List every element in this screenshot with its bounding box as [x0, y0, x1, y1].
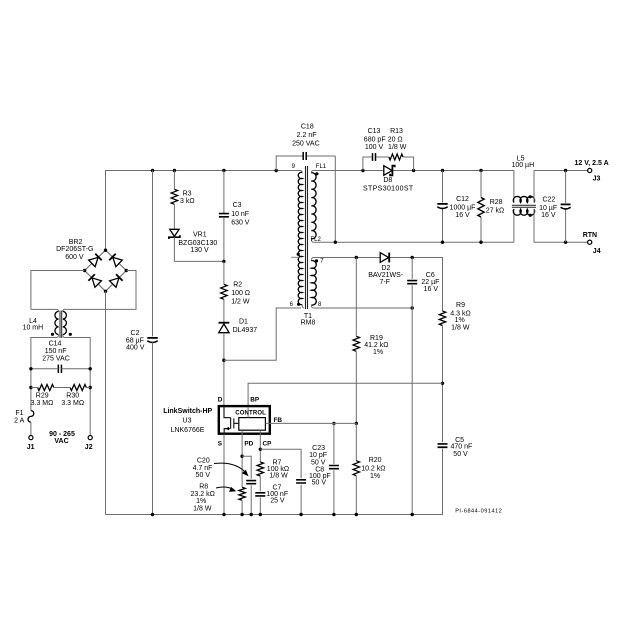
wire: CP pin down — [259, 435, 261, 462]
wire: node to R2 — [223, 261, 225, 284]
capacitor C7 — [255, 493, 265, 496]
wire: L4 left top wire — [31, 309, 59, 311]
svg-text:STPS30100ST: STPS30100ST — [363, 186, 414, 193]
svg-text:10 pF: 10 pF — [309, 452, 327, 459]
diode BR2 bottom-right — [110, 274, 123, 287]
U3 CP internal stub — [259, 430, 261, 435]
resistor R8 — [239, 487, 245, 500]
svg-text:10.2 kΩ: 10.2 kΩ — [361, 465, 385, 472]
svg-text:1%: 1% — [455, 317, 465, 324]
svg-text:CONTROL: CONTROL — [235, 410, 266, 416]
svg-text:2.2 nF: 2.2 nF — [297, 132, 317, 139]
svg-text:DL4937: DL4937 — [233, 327, 258, 334]
diode BR2 top-right — [109, 254, 122, 267]
svg-text:130 V: 130 V — [190, 247, 209, 254]
wire: pin 8 wire — [313, 307, 412, 309]
svg-text:1/8 W: 1/8 W — [193, 506, 212, 513]
capacitor C13 — [373, 153, 376, 161]
svg-text:600 V: 600 V — [65, 254, 84, 261]
svg-text:1/8 W: 1/8 W — [269, 472, 288, 479]
node: L4 polarity dots — [51, 333, 54, 336]
wire: FL1 wire to L5 — [313, 170, 514, 172]
wire: R3 branch top — [173, 171, 175, 190]
svg-text:630 V: 630 V — [231, 220, 250, 227]
wire: L5 to J3 — [534, 170, 588, 172]
svg-text:470 nF: 470 nF — [451, 444, 473, 451]
diode D1 — [219, 322, 230, 324]
svg-text:680 pF: 680 pF — [364, 136, 386, 143]
svg-text:4.7 nF: 4.7 nF — [193, 465, 213, 472]
wire: R9 to BP node to C5 — [412, 326, 442, 515]
node: FL1 rail dots — [361, 169, 364, 172]
svg-text:C20: C20 — [197, 457, 210, 464]
U3 FB internal stub — [265, 422, 271, 424]
node: bridge vertex dots — [104, 249, 107, 252]
svg-text:10 mH: 10 mH — [23, 324, 44, 331]
svg-text:C3: C3 — [233, 202, 242, 209]
bridge rectifier BR2 diamond — [85, 250, 127, 291]
resistor R19 — [353, 336, 359, 351]
svg-text:2 A: 2 A — [14, 417, 24, 424]
inductor L5 bottom winding — [513, 209, 515, 242]
svg-text:S: S — [218, 440, 223, 447]
svg-text:F1: F1 — [15, 410, 23, 417]
wire: R7 to C7 — [259, 476, 261, 515]
node: pin 7 wire dots — [355, 256, 358, 259]
node: FB junction dots — [332, 422, 335, 425]
svg-text:C22: C22 — [542, 196, 555, 203]
svg-text:LinkSwitch-HP: LinkSwitch-HP — [163, 408, 212, 415]
svg-text:7-F: 7-F — [380, 279, 391, 286]
transformer T1 primary winding (pins 9-6) — [298, 172, 302, 304]
inductor L4 right winding — [63, 311, 67, 334]
svg-text:R9: R9 — [456, 302, 465, 309]
svg-text:RTN: RTN — [583, 232, 597, 239]
wire: R19 to FB node — [355, 351, 357, 423]
wire: BP pin wire — [248, 383, 442, 405]
capacitor C20 — [246, 481, 256, 484]
node: FL1 polarity dot — [315, 172, 318, 175]
node: X-cap junction dots — [29, 367, 32, 370]
node: junction dots on primary top rail — [151, 169, 154, 172]
svg-text:R13: R13 — [390, 128, 403, 135]
wire: C13/R13 snubber branch — [363, 157, 414, 171]
fuse F1 — [28, 411, 34, 423]
wire: bridge minus down to bottom rail — [105, 291, 107, 514]
svg-text:LNK6766E: LNK6766E — [171, 427, 205, 434]
svg-text:R2: R2 — [233, 281, 242, 288]
capacitor C5 — [438, 444, 448, 447]
svg-text:DF206ST-G: DF206ST-G — [56, 246, 93, 253]
node: PD junction — [240, 455, 243, 458]
svg-text:25 V: 25 V — [270, 497, 285, 504]
capacitor C23 — [329, 466, 339, 469]
svg-text:400 V: 400 V — [126, 344, 145, 351]
svg-text:1%: 1% — [370, 473, 380, 480]
node: pin 8 dot — [411, 306, 414, 309]
capacitor C8 — [296, 480, 306, 483]
wire: L4 right bottom to J2 column — [63, 335, 90, 436]
wire: bridge + output to top rail, rail to transformer pin 9 — [106, 171, 303, 251]
svg-text:J2: J2 — [85, 444, 93, 451]
svg-text:FL1: FL1 — [316, 164, 327, 170]
diode D8 schottky — [384, 166, 392, 176]
wire: drain node to pin 6 — [224, 308, 301, 360]
svg-text:R28: R28 — [490, 199, 503, 206]
svg-text:C12: C12 — [456, 196, 469, 203]
svg-text:R8: R8 — [199, 483, 208, 490]
svg-text:22 µF: 22 µF — [421, 279, 439, 286]
wire: RTN rail left of L5 — [313, 241, 514, 243]
wire: R3 to VR1 — [173, 204, 175, 229]
wire: R19 branch — [355, 258, 357, 337]
wire: C18 branch — [276, 156, 335, 242]
svg-text:U3: U3 — [183, 417, 192, 424]
svg-text:PD: PD — [244, 440, 253, 447]
svg-text:BAV21WS-: BAV21WS- — [368, 272, 404, 279]
svg-text:1000 µF: 1000 µF — [450, 204, 476, 211]
U3 internal control box — [239, 418, 266, 431]
svg-text:50 V: 50 V — [196, 472, 211, 479]
svg-text:R30: R30 — [66, 393, 79, 400]
transformer T1 secondary winding (pins 7-8) — [311, 258, 313, 261]
wire: C14 left lead — [31, 368, 58, 370]
inductor L5 top winding — [513, 171, 515, 203]
svg-text:RM8: RM8 — [301, 319, 316, 326]
diode BR2 top-left — [89, 254, 102, 267]
svg-text:J1: J1 — [27, 444, 35, 451]
svg-text:C18: C18 — [301, 124, 314, 131]
resistor R3 — [171, 189, 177, 204]
resistor R20 — [353, 461, 359, 476]
svg-text:50 V: 50 V — [311, 459, 326, 466]
svg-text:D8: D8 — [383, 177, 392, 184]
wire: L4 left bottom to J1 column — [31, 335, 59, 411]
svg-text:1/8 W: 1/8 W — [388, 144, 407, 151]
svg-text:1%: 1% — [373, 349, 383, 356]
svg-text:68 µF: 68 µF — [126, 337, 144, 344]
wire: C14 right lead — [61, 368, 90, 370]
wire: VR1 bottom to C3 node — [174, 237, 224, 261]
svg-text:16 V: 16 V — [455, 212, 470, 219]
wire: FB wire — [271, 422, 356, 424]
wire: R20 branch — [355, 423, 357, 514]
arrow: C20 pointer — [214, 463, 247, 473]
resistor R28 — [478, 198, 484, 218]
wire: PD pin down — [241, 435, 243, 487]
svg-text:41.2 kΩ: 41.2 kΩ — [364, 342, 388, 349]
svg-text:12 V, 2.5 A: 12 V, 2.5 A — [575, 160, 609, 167]
wire: C3 branch top — [223, 171, 225, 214]
inductor L4 left winding — [55, 311, 59, 334]
resistor R9 — [439, 311, 445, 325]
node: clamp junction — [222, 260, 225, 263]
node: T1 primary polarity dot + stub — [297, 253, 300, 256]
svg-text:3.3 MΩ: 3.3 MΩ — [31, 400, 54, 407]
zener VR1 — [170, 229, 179, 236]
svg-text:275 VAC: 275 VAC — [42, 355, 70, 362]
capacitor C2 — [147, 337, 157, 339]
node: bottom rail dots — [151, 513, 154, 516]
wire: C12 branch — [442, 171, 444, 243]
wire: C20 branch — [242, 456, 251, 514]
svg-text:J3: J3 — [593, 176, 601, 183]
resistor R13 — [389, 154, 403, 160]
wire: C3 bottom to node — [223, 217, 225, 262]
svg-text:1/8 W: 1/8 W — [451, 324, 470, 331]
svg-text:BR2: BR2 — [69, 239, 83, 246]
node: pin 7 polarity dot — [315, 259, 318, 262]
svg-text:C2: C2 — [131, 330, 140, 337]
wire: C22 branch — [565, 171, 567, 243]
node: RTN rail dots — [334, 241, 337, 244]
wire: R28 branch — [480, 171, 482, 243]
svg-text:C14: C14 — [49, 340, 62, 347]
svg-text:50 V: 50 V — [453, 451, 468, 458]
svg-text:R3: R3 — [183, 190, 192, 197]
svg-text:3.3 MΩ: 3.3 MΩ — [61, 400, 84, 407]
U3 BP internal stub — [247, 407, 249, 418]
svg-text:VR1: VR1 — [193, 231, 207, 238]
terminal J4 — [588, 240, 592, 244]
capacitor C3 — [219, 214, 229, 217]
svg-text:C13: C13 — [368, 128, 381, 135]
terminal J3 — [588, 168, 592, 172]
node: C22 top dot — [564, 169, 567, 172]
resistor R2 — [221, 284, 227, 299]
wire: R29-R30 link — [31, 387, 90, 389]
wire: D1 to drain node — [223, 333, 225, 405]
svg-text:20 Ω: 20 Ω — [388, 136, 403, 143]
transistor U3 internal MOSFET — [224, 406, 239, 435]
svg-text:D2: D2 — [381, 265, 390, 272]
node: BP wire end dot — [441, 382, 444, 385]
core: L4 core lines — [60, 311, 62, 338]
wire: C8 branch — [260, 449, 301, 514]
svg-text:CP: CP — [263, 441, 273, 448]
node: L5 polarity dots — [529, 195, 532, 198]
svg-text:VAC: VAC — [54, 438, 68, 445]
wire: C2 branch upper — [152, 171, 154, 337]
svg-text:1%: 1% — [196, 498, 206, 505]
svg-text:10 nF: 10 nF — [231, 211, 249, 218]
node: C22 bottom dot — [564, 241, 567, 244]
capacitor C6 — [407, 281, 417, 284]
terminal J1 — [29, 436, 33, 440]
resistor R30 — [70, 385, 86, 391]
wire: pin 7 wire — [313, 258, 442, 312]
svg-text:C23: C23 — [312, 445, 325, 452]
svg-text:100 Ω: 100 Ω — [231, 290, 250, 297]
svg-text:J4: J4 — [593, 248, 601, 255]
wire: RTN rail right of L5 — [534, 241, 588, 243]
op-amp U3 IC box — [219, 406, 270, 434]
arrow: R8 pointer — [216, 487, 234, 489]
svg-text:BP: BP — [250, 397, 260, 404]
svg-text:250 VAC: 250 VAC — [292, 141, 320, 148]
wire: C6 branch — [411, 258, 413, 515]
wire: C23 branch — [333, 423, 335, 514]
svg-text:27 kΩ: 27 kΩ — [486, 207, 504, 214]
svg-text:10 µF: 10 µF — [539, 205, 557, 212]
wire: bridge right vertex down to L4 right top — [63, 271, 136, 312]
diode BR2 bottom-left — [88, 274, 101, 287]
wire: S pin to bottom rail — [223, 435, 225, 515]
svg-text:50 V: 50 V — [312, 480, 327, 487]
diode D2 — [380, 253, 388, 263]
svg-text:PI-6844-091412: PI-6844-091412 — [455, 509, 502, 515]
capacitor C22 — [561, 203, 571, 205]
svg-text:100 V: 100 V — [365, 144, 384, 151]
svg-text:1/2 W: 1/2 W — [231, 299, 250, 306]
svg-text:D: D — [218, 397, 223, 404]
wire: bottom source rail — [106, 514, 443, 516]
terminal J2 — [88, 436, 92, 440]
core: T1 core lines — [306, 166, 308, 309]
svg-text:3 kΩ: 3 kΩ — [180, 198, 195, 205]
node: pin 6 polarity dot — [297, 303, 300, 306]
wire: C2 branch lower — [152, 342, 154, 514]
svg-text:100 µH: 100 µH — [511, 162, 534, 169]
svg-text:R20: R20 — [369, 457, 382, 464]
node: drain junction — [222, 359, 225, 362]
wire: bridge left vertex to left AC vertical — [31, 271, 85, 310]
resistor R29 — [38, 385, 54, 391]
svg-text:R29: R29 — [36, 393, 49, 400]
svg-text:16 V: 16 V — [541, 212, 556, 219]
svg-text:90 - 265: 90 - 265 — [49, 431, 75, 438]
transformer T1 FL1-FL2 shield winding — [311, 171, 313, 173]
svg-text:C6: C6 — [426, 272, 435, 279]
core: L5 core lines — [512, 205, 536, 207]
svg-text:D1: D1 — [239, 318, 248, 325]
wire: R2 to D1 — [223, 299, 225, 322]
capacitor C14 — [58, 365, 61, 373]
resistor R7 — [257, 462, 263, 476]
wire: R8 to rail — [241, 500, 243, 514]
capacitor C18 — [303, 152, 306, 160]
svg-text:16 V: 16 V — [424, 286, 439, 293]
node: CP junction — [259, 448, 262, 451]
capacitor C12 — [437, 203, 447, 205]
svg-text:150 nF: 150 nF — [45, 348, 67, 355]
U3 PD internal stub — [241, 430, 243, 435]
svg-text:23.2 kΩ: 23.2 kΩ — [191, 491, 215, 498]
